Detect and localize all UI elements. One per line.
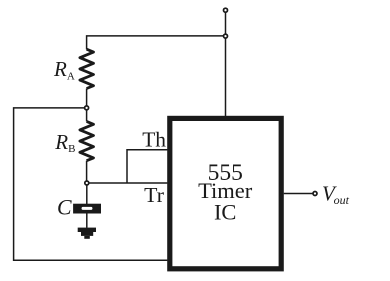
node: supply terminal circle — [224, 8, 228, 12]
label C — [57, 196, 72, 220]
svg-text:IC: IC — [214, 200, 237, 225]
wire: IC output to Vout terminal — [284, 193, 313, 195]
svg-text:Vout: Vout — [322, 181, 350, 207]
label Tr pin — [144, 183, 164, 207]
node: Vout terminal circle — [313, 192, 317, 196]
label Vout — [322, 181, 350, 207]
wire: trigger wire node B to IC — [87, 182, 168, 184]
wire: capacitor to ground — [86, 214, 88, 228]
wire: RB bottom lead to node B — [86, 161, 88, 183]
label 555 Timer IC — [198, 160, 253, 225]
wire: node A to RB top lead — [86, 108, 88, 122]
resistor RB — [80, 121, 94, 160]
node B: RB-C junction circle — [85, 181, 89, 185]
label Th pin — [142, 128, 166, 152]
wire: discharge loop from node A left, down and to IC lower left pin — [14, 108, 168, 260]
svg-text:RA: RA — [53, 57, 75, 82]
svg-text:RB: RB — [54, 130, 75, 155]
wire: threshold jog up from trigger wire into IC — [127, 150, 167, 183]
resistor RA — [80, 49, 94, 88]
label RB — [54, 130, 75, 155]
svg-text:Th: Th — [142, 128, 166, 152]
node: supply junction circle — [224, 34, 228, 38]
svg-text:C: C — [57, 196, 72, 220]
wire: junction down to IC top pin 8 — [225, 36, 227, 116]
label RA — [53, 57, 75, 82]
ground — [78, 228, 96, 239]
wire: node B down to capacitor — [86, 183, 88, 204]
capacitor C — [73, 204, 101, 214]
node A: RA-RB junction circle — [85, 106, 89, 110]
wire: RA bottom lead to node A — [86, 89, 88, 108]
op-amp/IC U1: 555 timer box — [170, 118, 281, 268]
svg-text:Tr: Tr — [144, 183, 164, 207]
wire: top horizontal from RA top corner to supply junction — [87, 36, 226, 50]
wire: supply terminal to junction — [225, 10, 227, 36]
